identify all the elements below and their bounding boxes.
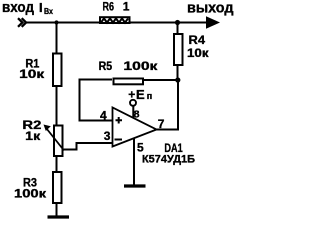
svg-text:100к: 100к xyxy=(123,59,158,73)
svg-text:1к: 1к xyxy=(25,129,41,143)
svg-text:Вх: Вх xyxy=(44,6,53,16)
svg-text:8: 8 xyxy=(134,109,140,121)
svg-text:7: 7 xyxy=(158,117,165,131)
svg-text:4: 4 xyxy=(100,108,107,122)
svg-text:100к: 100к xyxy=(14,187,47,201)
svg-text:10к: 10к xyxy=(19,67,45,81)
svg-text:R6: R6 xyxy=(103,0,115,14)
svg-text:выход: выход xyxy=(187,0,234,17)
svg-text:R4: R4 xyxy=(189,33,206,47)
svg-text:К574УД1Б: К574УД1Б xyxy=(142,153,195,165)
svg-text:1: 1 xyxy=(123,0,130,14)
svg-text:I: I xyxy=(39,0,43,15)
svg-text:п: п xyxy=(147,91,152,101)
svg-text:10к: 10к xyxy=(187,46,210,60)
svg-text:5: 5 xyxy=(137,141,144,155)
svg-text:+: + xyxy=(128,88,135,102)
svg-text:вход: вход xyxy=(2,0,34,16)
svg-text:3: 3 xyxy=(104,129,111,143)
svg-text:Е: Е xyxy=(136,87,145,102)
svg-text:R5: R5 xyxy=(99,59,113,73)
